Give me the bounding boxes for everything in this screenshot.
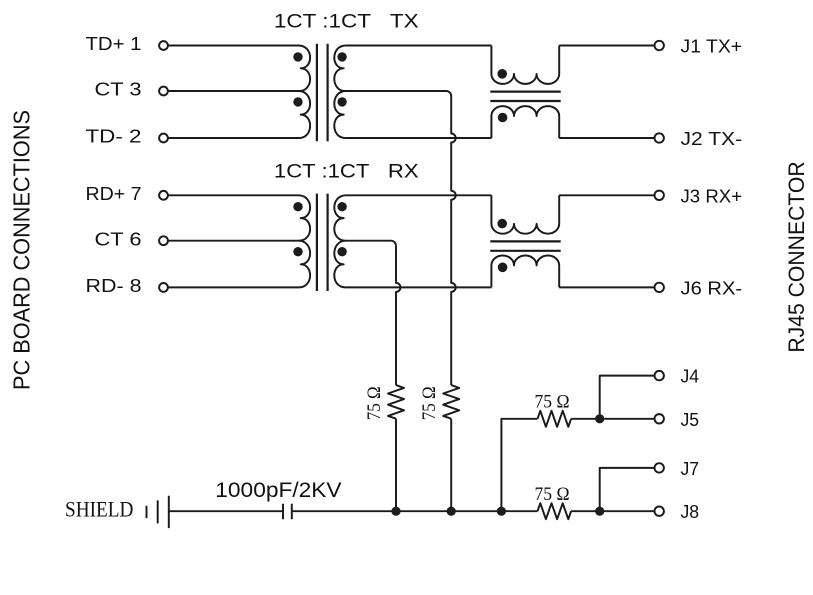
svg-text:CT 3: CT 3 <box>95 79 142 100</box>
svg-text:1000pF/2KV: 1000pF/2KV <box>215 479 341 502</box>
wire node to J5 <box>600 418 655 420</box>
transformer T1 core <box>317 44 328 141</box>
svg-text:J2 TX-: J2 TX- <box>681 128 743 149</box>
svg-text:CT 6: CT 6 <box>95 228 142 249</box>
terminal J5 <box>655 414 664 423</box>
wire R3 to node J5 <box>571 418 600 420</box>
svg-text:J1 TX+: J1 TX+ <box>681 36 743 57</box>
svg-text:J8: J8 <box>681 501 700 522</box>
choke L1 top winding <box>491 46 559 84</box>
svg-text:J4: J4 <box>681 366 700 387</box>
svg-text:J5: J5 <box>681 409 700 430</box>
wire T2 secondary center tap <box>345 241 396 246</box>
svg-text:PC BOARD CONNECTIONS: PC BOARD CONNECTIONS <box>8 110 34 390</box>
transformer T2 polarity dots <box>293 202 347 256</box>
transformer T1 primary winding <box>299 46 310 139</box>
wire T1 secondary center tap <box>345 91 451 96</box>
wire R4 to J8 <box>571 510 654 512</box>
svg-text:RJ45 CONNECTOR: RJ45 CONNECTOR <box>784 161 809 352</box>
choke L1 polarity dots <box>497 69 507 122</box>
terminal CT 6 <box>159 236 168 245</box>
wire TD- to T1 primary <box>168 137 299 139</box>
transformer T1 polarity dots <box>293 52 347 106</box>
svg-text:TD- 2: TD- 2 <box>86 126 142 147</box>
svg-text:J6 RX-: J6 RX- <box>681 277 743 298</box>
terminal TD- 2 <box>159 134 168 143</box>
choke L1 bottom winding <box>491 106 559 138</box>
wire choke L1 to J1 <box>559 45 654 47</box>
wire bus riser to R3 <box>501 419 537 511</box>
ground bus wire <box>292 510 538 512</box>
transformer T2 primary winding <box>299 195 310 287</box>
choke L2 top winding <box>491 195 559 233</box>
wire R2 to ground bus <box>450 419 452 512</box>
wire T2 secondary bottom to choke L2 <box>345 286 491 288</box>
choke L2 core <box>490 241 560 250</box>
wire CT6 to T2 primary <box>168 240 299 242</box>
resistor R1 75ohm (RX) <box>388 385 404 419</box>
terminal J1 <box>655 41 664 50</box>
wire T1 secondary top to choke L1 <box>345 45 491 47</box>
wire RD+ to T2 primary <box>168 194 299 196</box>
wire R1 to ground bus <box>395 419 397 512</box>
svg-text:TD+ 1: TD+ 1 <box>86 33 142 54</box>
resistor R2 75ohm (TX) <box>443 385 459 419</box>
transformer T1 secondary winding <box>334 46 345 139</box>
wire choke L1 to J2 <box>559 137 654 139</box>
wire node to J4 <box>600 376 655 419</box>
junction dots <box>391 414 604 516</box>
terminal RD- 8 <box>159 283 168 292</box>
wire CT3 to T1 primary <box>168 90 299 92</box>
terminal TD+ 1 <box>159 41 168 50</box>
choke L2 polarity dots <box>497 219 507 272</box>
svg-text:J7: J7 <box>681 458 700 479</box>
terminal J6 <box>655 283 664 292</box>
svg-text:RD+ 7: RD+ 7 <box>86 183 142 204</box>
shield connection bars <box>147 496 169 528</box>
terminal J4 <box>655 371 664 380</box>
svg-text:75 Ω: 75 Ω <box>364 386 385 420</box>
wire RX center-tap vertical with hop <box>396 246 401 385</box>
svg-text:75 Ω: 75 Ω <box>535 484 570 505</box>
terminal J2 <box>655 133 664 142</box>
svg-text:RD- 8: RD- 8 <box>86 275 142 296</box>
wire RD- to T2 primary <box>168 286 299 288</box>
terminal J3 <box>655 191 664 200</box>
resistor R3 75ohm <box>538 411 572 427</box>
wire TD+ to T1 primary <box>168 45 299 47</box>
wire node to J7 <box>600 468 655 511</box>
capacitor C1 1000pF/2KV <box>283 504 292 520</box>
wire choke L2 to J3 <box>559 194 654 196</box>
svg-text:1CT :1CT TX: 1CT :1CT TX <box>274 12 419 33</box>
svg-text:1CT :1CT RX: 1CT :1CT RX <box>274 161 419 182</box>
terminal J8 <box>655 507 664 516</box>
wire TX center-tap vertical with hops <box>451 96 456 385</box>
wire T2 secondary top to choke L2 <box>345 194 491 196</box>
svg-text:SHIELD: SHIELD <box>65 497 133 522</box>
terminal J7 <box>655 463 664 472</box>
wire T1 secondary bottom to choke L1 <box>345 137 491 139</box>
choke L1 core <box>490 92 560 101</box>
terminal CT 3 <box>159 87 168 96</box>
svg-text:J3 RX+: J3 RX+ <box>681 185 743 206</box>
choke L2 bottom winding <box>491 255 559 287</box>
transformer T2 secondary winding <box>334 195 345 287</box>
wire choke L2 to J6 <box>559 286 654 288</box>
svg-text:75 Ω: 75 Ω <box>535 391 570 412</box>
svg-text:75 Ω: 75 Ω <box>419 386 440 420</box>
wire shield to capacitor C1 <box>169 510 283 512</box>
transformer T2 core <box>317 194 328 291</box>
resistor R4 75ohm <box>538 503 572 519</box>
terminal RD+ 7 <box>159 191 168 200</box>
